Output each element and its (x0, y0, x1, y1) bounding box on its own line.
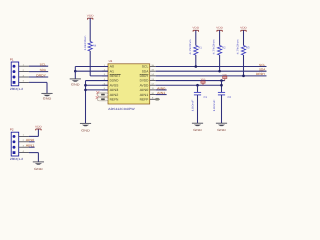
no-ERC mark AIN2 (96, 91, 99, 94)
U1 pin 15 stub (150, 70, 156, 72)
IC U1 ADS112C04 body (108, 64, 150, 104)
U1 pin 2 stub (102, 70, 108, 72)
svg-text:GND: GND (193, 128, 203, 132)
svg-text:GND: GND (43, 96, 53, 100)
RESET overbar (110, 73, 121, 75)
wire AVDD (156, 84, 222, 86)
svg-text:SCL: SCL (259, 63, 266, 67)
P1 pin 2 stub (19, 71, 29, 73)
svg-text:DRDY: DRDY (36, 73, 46, 77)
power VDD above R3 (241, 30, 246, 31)
wire P2 AIN0 (29, 141, 35, 143)
connector P2 body (11, 132, 19, 156)
wire DVDD down to C2 (221, 81, 223, 93)
svg-text:REFN: REFN (110, 97, 119, 101)
junction AVDD-C2 (220, 84, 223, 87)
U1 pin 5 stub (102, 84, 108, 86)
P2 pin 4 stub (19, 152, 29, 154)
R3 top wire (243, 30, 245, 45)
svg-text:100nF: 100nF (213, 99, 216, 112)
svg-text:VDD: VDD (240, 27, 247, 30)
C2 wire to gnd (221, 95, 223, 123)
svg-text:SDA: SDA (259, 67, 266, 71)
U1 pin 11 stub (150, 89, 156, 91)
P2 pin 3 stub (19, 146, 29, 148)
wire P1 DRDY (29, 76, 48, 78)
wire P2 pin1 up (37, 129, 39, 136)
DRDY overbar (140, 73, 149, 75)
wire P1 pin4 (29, 81, 47, 83)
R2 bottom wire (219, 55, 221, 71)
wire DVDD (156, 80, 225, 82)
wire AVDD down to C1 (197, 85, 199, 92)
wire DGND down (85, 81, 87, 124)
svg-text:DGND: DGND (110, 79, 119, 83)
wire P2 pin1 (29, 135, 39, 137)
U1 pin 10 stub (150, 94, 156, 96)
svg-text:AIN1: AIN1 (26, 144, 35, 148)
P2 pin 2 stub (19, 141, 29, 143)
wire DRDY (156, 75, 267, 77)
P1 pin 3 pad (13, 76, 16, 79)
connector P1 body (11, 62, 19, 86)
svg-text:R4: R4 (93, 44, 97, 48)
junction DGND-AIN3 (84, 89, 87, 92)
svg-text:AIN3: AIN3 (110, 88, 119, 92)
svg-text:GND: GND (217, 128, 227, 132)
svg-text:GND: GND (34, 167, 44, 171)
wire P2 pin4 down (37, 153, 39, 162)
port REFN (98, 98, 109, 101)
U1 pin 13 stub (150, 80, 156, 82)
P1 pin 3 stub (19, 76, 29, 78)
P2 pin 1 stub (19, 135, 29, 137)
svg-text:10kOhm: 10kOhm (84, 36, 87, 51)
wire DGND (86, 80, 109, 82)
junction R2 (218, 70, 221, 73)
U1 pin 1 stub (102, 66, 108, 68)
C1 wire to gnd (197, 95, 199, 123)
P2 pin 2 pad (13, 140, 16, 143)
P1 pin 1 stub (19, 65, 29, 67)
P1 pin 4 pad (13, 81, 16, 84)
svg-text:A0: A0 (110, 65, 115, 69)
power flag VDD on AVDD (202, 83, 204, 85)
ground A0A1 (70, 78, 81, 80)
port REFP (156, 98, 160, 100)
resistor R2 (218, 46, 222, 56)
ground C2 (216, 122, 227, 124)
svg-text:100nF: 100nF (191, 99, 194, 112)
R4 top wire (89, 18, 91, 41)
svg-text:AIN1: AIN1 (157, 91, 166, 95)
svg-text:VDD: VDD (192, 27, 199, 30)
svg-text:R1: R1 (198, 46, 202, 50)
wire P1 SCL (29, 65, 48, 67)
ground C1 (192, 122, 203, 124)
resistor R4 (88, 42, 92, 52)
wire P1 SDA (29, 71, 48, 73)
wire A1 (75, 70, 108, 72)
junction DVDD-C2 (220, 79, 223, 82)
svg-text:AIN0: AIN0 (140, 88, 149, 92)
power VDD above R4 (88, 18, 93, 19)
port AIN2 (98, 93, 109, 96)
svg-text:U1: U1 (109, 59, 113, 63)
U1 pin 16 stub (150, 66, 156, 68)
power VDD above R1 (193, 30, 198, 31)
P2 pin 1 pad (13, 135, 16, 138)
svg-text:AIN1: AIN1 (140, 93, 149, 97)
svg-text:SCL: SCL (142, 65, 149, 69)
svg-text:VDD: VDD (201, 78, 206, 81)
wire SDA (156, 70, 267, 72)
wire SCL (156, 66, 267, 68)
svg-text:SDA: SDA (142, 69, 149, 73)
ground P2 (33, 161, 44, 163)
svg-text:RESET: RESET (110, 74, 121, 78)
wire P1 pin4 down (46, 82, 48, 93)
svg-text:GND: GND (71, 82, 81, 86)
svg-text:AVDD: AVDD (140, 83, 150, 87)
svg-text:P2: P2 (10, 128, 14, 132)
junction R3 (242, 75, 245, 78)
R1 bottom wire (195, 55, 197, 67)
U1 pin 4 stub (102, 80, 108, 82)
power VDD above P2 (36, 129, 41, 130)
wire AVSS (86, 84, 109, 86)
svg-text:REFP: REFP (140, 97, 149, 101)
svg-text:ADS112C04IPW: ADS112C04IPW (108, 107, 135, 111)
P1 pin 4 stub (19, 81, 29, 83)
R2 top wire (219, 30, 221, 45)
P1 pin 1 pad (13, 65, 16, 68)
U1 pin 6 stub (102, 89, 108, 91)
P1 pin 2 pad (13, 70, 16, 73)
svg-text:C1: C1 (204, 95, 208, 99)
junction R1 (195, 65, 198, 68)
junction A0-A1 (74, 70, 77, 73)
svg-text:DVDD: DVDD (140, 79, 149, 83)
wire AIN1 (156, 94, 167, 96)
svg-text:C2: C2 (228, 95, 232, 99)
svg-text:P1: P1 (10, 57, 14, 61)
svg-text:GND: GND (81, 128, 91, 132)
wire P2 pin4 (29, 152, 39, 154)
wire A0 (75, 66, 108, 68)
U1 pin 9 stub (150, 98, 156, 100)
wire A0 down (74, 67, 76, 72)
svg-text:VDD: VDD (223, 74, 228, 77)
svg-text:A1: A1 (110, 69, 115, 73)
ground P1 (41, 92, 52, 94)
svg-text:DRDY: DRDY (140, 74, 150, 78)
R3 bottom wire (243, 55, 245, 76)
resistor R1 (194, 46, 198, 56)
wire AIN0 (156, 89, 167, 91)
svg-text:R3: R3 (246, 46, 250, 50)
resistor R3 (241, 46, 245, 56)
svg-text:4.7kOhm: 4.7kOhm (237, 40, 240, 55)
svg-text:SDA: SDA (40, 68, 47, 72)
U1 pin 3 stub (102, 75, 108, 77)
svg-text:4.7kOhm: 4.7kOhm (213, 40, 216, 55)
svg-text:4.7kOhm: 4.7kOhm (189, 40, 192, 55)
power VDD above R2 (217, 30, 222, 31)
junction AVDD-C1 (196, 84, 199, 87)
ground DGND (80, 122, 91, 124)
svg-text:VDD: VDD (87, 15, 94, 18)
P2 pin 3 pad (13, 146, 16, 149)
svg-text:R2: R2 (222, 46, 226, 50)
power flag VDD on DVDD (224, 79, 226, 81)
svg-text:2804(1-2: 2804(1-2 (10, 87, 24, 91)
svg-text:AIN0: AIN0 (26, 138, 35, 142)
wire A1 down to gnd (74, 71, 76, 79)
U1 pin 12 stub (150, 84, 156, 86)
svg-text:SCL: SCL (40, 63, 47, 67)
wire R4 to RESET (90, 75, 108, 77)
svg-text:2804(1-2: 2804(1-2 (10, 157, 24, 161)
wire AIN3 (86, 89, 109, 91)
capacitor C2 (218, 91, 225, 93)
svg-text:DRDY: DRDY (256, 72, 265, 76)
P2 pin 4 pad (13, 151, 16, 154)
U1 pin 14 stub (150, 75, 156, 77)
svg-text:AIN0: AIN0 (157, 86, 166, 90)
junction DGND-AVSS (84, 84, 87, 87)
no-ERC mark REFN (96, 96, 99, 99)
capacitor C1 (194, 91, 201, 93)
svg-text:AIN2: AIN2 (110, 93, 119, 97)
svg-text:AVSS: AVSS (110, 83, 119, 87)
wire P2 AIN1 (29, 146, 35, 148)
svg-text:VDD: VDD (216, 27, 223, 30)
R1 top wire (195, 30, 197, 45)
R4 bottom wire (89, 51, 91, 76)
svg-text:VDD: VDD (35, 125, 42, 128)
